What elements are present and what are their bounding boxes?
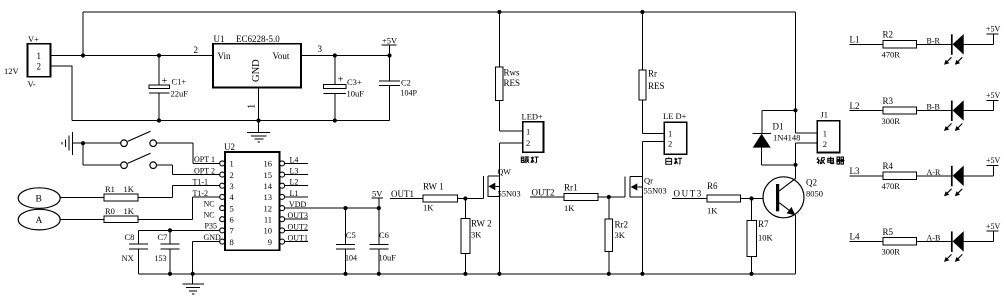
wire LED to +5V [964, 231, 994, 241]
svg-text:+5V: +5V [986, 222, 1001, 231]
U2 pin 4 circle [220, 194, 225, 199]
svg-text:2: 2 [230, 170, 234, 180]
resistor Rws RES [496, 10, 520, 131]
wire stub U2 pin 14 [285, 185, 308, 187]
svg-text:1K: 1K [707, 206, 718, 216]
svg-text:1K: 1K [124, 206, 135, 216]
svg-text:U1: U1 [214, 34, 225, 44]
svg-text:8: 8 [230, 237, 234, 247]
wire stub U2 pin 13 [285, 196, 308, 198]
svg-text:V+: V+ [28, 34, 39, 44]
svg-text:C7: C7 [158, 232, 168, 242]
svg-text:C8: C8 [125, 232, 135, 242]
svg-text:470R: 470R [882, 50, 901, 60]
svg-text:R0: R0 [105, 206, 115, 216]
U2 pin 1 circle [220, 161, 225, 166]
wire LED to +5V [964, 100, 994, 110]
switch S1 (to OPT1) [121, 131, 157, 146]
transistor Q2 8050 NPN [763, 165, 823, 274]
svg-text:300R: 300R [882, 247, 901, 257]
wire stub U2 pin 15 [285, 174, 308, 176]
capacitor C7 153 [155, 230, 180, 276]
U2 pin 6 circle [220, 217, 225, 222]
svg-text:D1: D1 [773, 122, 784, 132]
wire S1 to U2 OPT1 pin1 [157, 143, 220, 163]
svg-text:300R: 300R [882, 116, 901, 126]
svg-text:104: 104 [345, 254, 357, 263]
wire stub U2 pin 10 [285, 229, 308, 231]
wire Rr1 to Qr gate [598, 196, 625, 198]
svg-text:2: 2 [194, 45, 199, 55]
resistor Rr2 3K [605, 197, 628, 276]
resistor R7 10K [747, 199, 774, 276]
wire U1 pin1 to ground rail [258, 88, 260, 121]
svg-text:Vout: Vout [273, 51, 290, 61]
node +5V at L4 row [986, 222, 1001, 231]
svg-text:10uF: 10uF [379, 253, 397, 263]
resistor Rr1 1K [564, 183, 598, 214]
wire power ground rail [72, 120, 390, 122]
wire ground to switch S1 [72, 142, 120, 144]
label relay (Chinese) [817, 157, 825, 164]
svg-text:R2: R2 [883, 30, 894, 40]
connector LED+ white lamp [642, 111, 686, 154]
U2 pin 12 circle [280, 206, 285, 211]
wire R0 to U2 T1-2 pin4 [138, 197, 220, 219]
wire U2 VDD pin12 to 5V [285, 207, 379, 209]
diode D1 1N4148 [752, 110, 800, 167]
svg-text:GND: GND [251, 59, 262, 82]
resistor RW1 1K [423, 182, 458, 213]
connector P1 12V input [4, 34, 51, 89]
resistor Rr RES [639, 10, 665, 133]
svg-text:Vin: Vin [218, 51, 231, 61]
U2 pin 11 circle [280, 217, 285, 222]
connector LED+ warm lamp [499, 112, 543, 153]
svg-text:14: 14 [264, 181, 273, 191]
svg-text:OUT3: OUT3 [674, 189, 703, 199]
wire L1 to R2 [850, 43, 884, 45]
svg-text:OUT2: OUT2 [532, 188, 555, 198]
U2 pin 2 circle [220, 172, 225, 177]
svg-text:15: 15 [264, 170, 273, 180]
svg-text:QW: QW [498, 168, 512, 177]
svg-text:Rr1: Rr1 [564, 183, 578, 193]
node +5V power [382, 36, 399, 56]
svg-text:R6: R6 [707, 181, 718, 191]
svg-text:Q2: Q2 [806, 178, 817, 188]
svg-text:RES: RES [504, 78, 521, 88]
svg-text:2: 2 [823, 139, 827, 149]
svg-text:EC6228-5.0: EC6228-5.0 [236, 34, 280, 44]
svg-text:9: 9 [268, 237, 272, 247]
svg-text:J1: J1 [821, 110, 829, 120]
svg-text:C2: C2 [401, 78, 411, 88]
node 5V label [372, 189, 384, 209]
wire junction down to switch S2 [83, 143, 121, 165]
wire RW1 to QW gate [458, 198, 484, 200]
svg-text:153: 153 [155, 254, 167, 263]
wire stub U2 pin 11 [285, 218, 308, 220]
wire R2 to LED B-R [917, 43, 952, 45]
svg-text:Rr2: Rr2 [615, 220, 629, 230]
LED B-B [944, 100, 964, 131]
U2 pin 3 circle [220, 183, 225, 188]
wire top rail down to D1/J1 [795, 12, 797, 133]
svg-text:NC: NC [204, 199, 215, 208]
svg-text:55N03: 55N03 [644, 186, 667, 196]
svg-text:R4: R4 [883, 161, 894, 171]
svg-text:1K: 1K [124, 184, 135, 194]
svg-text:NX: NX [122, 253, 134, 263]
switch S2 (to OPT2) [121, 153, 157, 168]
resistor R1 1K [104, 184, 138, 201]
svg-text:1K: 1K [564, 203, 575, 213]
U2 pin 9 circle [280, 239, 285, 244]
svg-text:1: 1 [230, 159, 234, 169]
svg-text:1: 1 [668, 129, 672, 139]
LED B-R [944, 34, 964, 65]
svg-text:7: 7 [230, 226, 234, 236]
svg-text:B: B [36, 195, 42, 205]
svg-text:1N4148: 1N4148 [773, 133, 800, 143]
svg-text:+5V: +5V [986, 25, 1001, 34]
wire L3 to R4 [850, 175, 884, 177]
capacitor C5 104 [336, 208, 357, 276]
svg-text:1: 1 [247, 104, 258, 109]
svg-text:C6: C6 [379, 230, 389, 240]
wire R4 to LED A-R [917, 175, 952, 177]
wire R1 to U2 T1-1 pin3 [138, 186, 220, 198]
svg-text:12V: 12V [4, 66, 20, 76]
ground symbol under U1 [247, 121, 270, 142]
svg-text:1K: 1K [423, 203, 434, 213]
svg-text:22uF: 22uF [171, 89, 189, 99]
resistor R2 470R [882, 30, 917, 60]
svg-text:R1: R1 [105, 184, 115, 194]
op-amp U1 EC6228-5.0 regulator [213, 34, 301, 88]
svg-text:A: A [36, 216, 43, 226]
svg-text:LED+: LED+ [522, 112, 544, 122]
svg-text:10K: 10K [758, 233, 774, 243]
node A input [18, 209, 60, 230]
capacitor C6 10uF [369, 208, 396, 276]
resistor R4 470R [882, 161, 917, 191]
svg-text:T1-1: T1-1 [193, 178, 209, 187]
wire bottom ground rail [138, 273, 795, 275]
svg-text:10: 10 [264, 226, 273, 236]
svg-text:R3: R3 [883, 96, 894, 106]
svg-text:12: 12 [264, 203, 273, 213]
svg-text:+: + [338, 75, 344, 86]
wire L2 to R3 [850, 110, 884, 112]
node V12 junction [81, 53, 85, 57]
svg-text:5: 5 [230, 203, 234, 213]
wire OUT2 to Rr1 [530, 196, 564, 198]
U2 pin 7 circle [220, 228, 225, 233]
svg-text:RW 2: RW 2 [471, 219, 492, 229]
U2 pin 16 circle [280, 161, 285, 166]
LED A-R [944, 166, 964, 197]
svg-text:OPT 2: OPT 2 [194, 166, 215, 175]
wire LED to +5V [964, 34, 994, 44]
wire U2 P35 pin7 to C8/C7 [138, 229, 219, 231]
svg-text:5V: 5V [372, 189, 383, 199]
wire U2 GND pin8 to ground rail [193, 242, 220, 274]
wire B to R1 [60, 197, 104, 199]
node B input [18, 188, 60, 209]
node +5V at L2 row [986, 91, 1001, 100]
U2 pin 10 circle [280, 228, 285, 233]
wire L4 to R5 [850, 240, 884, 242]
U2 pin 15 circle [280, 172, 285, 177]
svg-text:RES: RES [648, 81, 665, 91]
wire OUT3 to R6 [672, 198, 707, 200]
svg-text:55N03: 55N03 [498, 189, 521, 199]
svg-text:1: 1 [37, 51, 42, 61]
label white-lamp (Chinese) [666, 157, 672, 164]
capacitor C2 104P [379, 53, 418, 120]
svg-text:L1: L1 [850, 35, 860, 45]
svg-text:+5V: +5V [986, 91, 1001, 100]
svg-text:L2: L2 [850, 101, 860, 111]
svg-text:2: 2 [526, 138, 530, 148]
connector J1 relay [796, 110, 840, 165]
label warm-lamp (Chinese) [521, 157, 529, 163]
svg-text:Rws: Rws [504, 68, 521, 78]
ground symbol under U2 [182, 274, 204, 294]
svg-text:OPT 1: OPT 1 [194, 155, 215, 164]
svg-text:U2: U2 [224, 142, 235, 152]
resistor RW2 3K [461, 199, 492, 276]
svg-text:OUT1: OUT1 [391, 189, 414, 199]
svg-text:C5: C5 [346, 230, 356, 240]
svg-text:Qr: Qr [644, 176, 653, 186]
wire top +12V rail [83, 11, 796, 13]
resistor R6 1K [707, 181, 741, 216]
svg-text:C3+: C3+ [347, 77, 362, 87]
svg-text:+: + [162, 76, 168, 87]
capacitor C8 NX crystal [122, 230, 149, 273]
svg-text:1: 1 [526, 127, 530, 137]
wire OUT1 to RW1 [390, 198, 423, 200]
svg-text:13: 13 [264, 192, 273, 202]
U2 pin 14 circle [280, 183, 285, 188]
ground (earth) symbol left of switches [62, 132, 72, 155]
resistor R3 300R [882, 96, 917, 126]
transistor Qr 55N03 MOSFET [625, 142, 667, 276]
capacitor C3 10uF [324, 53, 365, 122]
svg-text:3: 3 [230, 181, 234, 191]
U2 pin 13 circle [280, 194, 285, 199]
svg-text:10uF: 10uF [347, 89, 365, 99]
svg-text:1: 1 [823, 129, 827, 139]
LED A-B [944, 231, 964, 262]
svg-text:104P: 104P [401, 89, 418, 98]
wire junction up to top rail [82, 12, 84, 56]
svg-text:V-: V- [28, 79, 36, 89]
wire R5 to LED A-B [917, 240, 952, 242]
svg-text:6: 6 [230, 214, 234, 224]
svg-text:16: 16 [264, 159, 273, 169]
svg-text:2: 2 [37, 62, 42, 72]
wire A to R0 [60, 218, 104, 220]
svg-text:L4: L4 [850, 232, 860, 242]
U2 pin 5 circle [220, 206, 225, 211]
node switch common junction [81, 141, 85, 145]
wire LED to +5V [964, 166, 994, 176]
svg-text:8050: 8050 [806, 189, 823, 199]
svg-text:P35: P35 [205, 221, 217, 230]
wire U1 Vout to +5V node [301, 55, 390, 57]
transistor QW 55N03 MOSFET [484, 143, 521, 276]
svg-text:+5V: +5V [382, 36, 398, 46]
svg-text:R5: R5 [883, 227, 894, 237]
capacitor C1 22uF [149, 53, 188, 122]
svg-text:L3: L3 [850, 166, 860, 176]
svg-text:R7: R7 [758, 219, 769, 229]
U2 pin 8 circle [220, 239, 225, 244]
svg-text:+5V: +5V [986, 156, 1001, 165]
wire S2 to U2 OPT2 pin2 [157, 165, 220, 174]
svg-text:C1+: C1+ [172, 77, 187, 87]
node +5V at L3 row [986, 156, 1001, 165]
svg-text:NC: NC [204, 210, 215, 219]
svg-text:470R: 470R [882, 181, 901, 191]
resistor R0 1K [104, 206, 138, 223]
wire P1 pin1 to U1 Vin [51, 55, 214, 57]
wire P1 pin2 to ground rail [51, 66, 73, 121]
svg-text:Rr: Rr [648, 69, 657, 79]
wire stub U2 pin 9 [285, 241, 308, 243]
svg-text:11: 11 [264, 214, 272, 224]
svg-text:GND: GND [204, 233, 222, 242]
IC U2 MCU [224, 142, 280, 250]
svg-text:3K: 3K [471, 230, 482, 240]
wire R3 to LED B-B [917, 110, 952, 112]
resistor R5 300R [882, 227, 917, 257]
svg-text:2: 2 [668, 139, 672, 149]
node +5V at L1 row [986, 25, 1001, 34]
svg-text:3: 3 [318, 44, 323, 54]
wire stub U2 pin 16 [285, 162, 308, 164]
svg-text:RW 1: RW 1 [423, 182, 444, 192]
svg-text:LE D+: LE D+ [663, 111, 687, 121]
svg-text:3K: 3K [615, 230, 626, 240]
wire R6 to Q2 base [741, 198, 777, 200]
